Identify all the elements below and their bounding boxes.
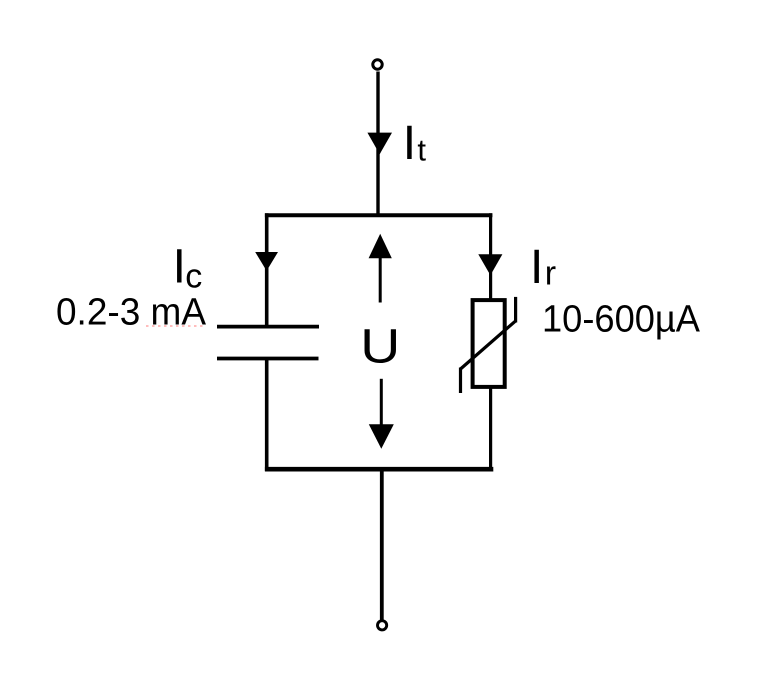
top terminal bbox=[373, 60, 382, 69]
svg-text:c: c bbox=[185, 258, 202, 296]
arrow U down bbox=[369, 379, 394, 449]
svg-text:I: I bbox=[403, 117, 416, 170]
arrow U up bbox=[369, 234, 392, 303]
svg-text:t: t bbox=[417, 133, 426, 168]
svg-text:0.2-3 mA: 0.2-3 mA bbox=[56, 292, 207, 334]
label It bbox=[403, 117, 427, 170]
spellcheck underline under mA bbox=[146, 325, 203, 327]
capacitor plate bottom bbox=[217, 357, 319, 361]
wire top vertical bbox=[376, 72, 379, 218]
arrow Ir bbox=[478, 254, 502, 275]
capacitor plate top bbox=[217, 325, 319, 329]
arrow Ic bbox=[255, 252, 278, 271]
arrow It bbox=[367, 133, 392, 155]
wire bottom horizontal bbox=[265, 467, 493, 472]
varistor RV diagonal bbox=[461, 321, 516, 369]
wire top horizontal bbox=[265, 213, 493, 217]
svg-text:I: I bbox=[173, 241, 186, 294]
wire right branch upper bbox=[489, 213, 492, 300]
svg-text:I: I bbox=[530, 241, 543, 294]
svg-text:U: U bbox=[360, 320, 400, 373]
varistor RV body bbox=[473, 300, 505, 387]
wire right branch lower bbox=[489, 387, 492, 472]
bottom terminal bbox=[378, 621, 387, 630]
label Ic bbox=[173, 241, 203, 296]
svg-text:r: r bbox=[545, 255, 556, 293]
label Ir bbox=[530, 241, 556, 294]
varistor RV tail bottom bbox=[459, 368, 462, 394]
varistor RV tail top bbox=[514, 297, 517, 323]
wire bottom vertical bbox=[380, 469, 384, 621]
wire left branch upper bbox=[265, 213, 269, 326]
svg-text:10-600µA: 10-600µA bbox=[542, 298, 701, 340]
wire left branch lower bbox=[265, 359, 269, 472]
